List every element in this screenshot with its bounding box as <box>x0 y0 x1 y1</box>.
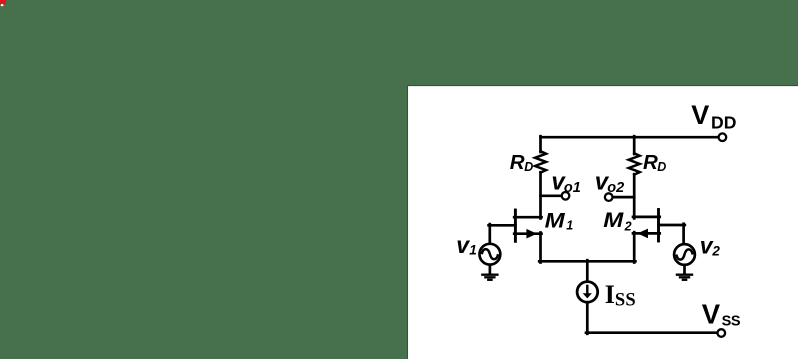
terminal node VDD <box>719 133 727 141</box>
ground below v1 <box>481 275 498 280</box>
terminal node vo2 <box>605 193 613 201</box>
wire: vo2 stub <box>613 196 635 199</box>
wire: v2 elbow vertical <box>682 224 685 245</box>
wire: left branch upper vertical (rail to RD1) <box>539 136 542 152</box>
svg-text:R: R <box>510 151 525 174</box>
svg-text:2: 2 <box>624 220 632 234</box>
wire: VDD top rail <box>541 136 719 139</box>
current source ISS circle <box>577 282 598 303</box>
wire: tail to ISS circle <box>586 260 589 282</box>
wire: M1 source lead <box>514 232 541 235</box>
label v2 <box>700 233 721 259</box>
svg-text:1: 1 <box>566 219 573 233</box>
svg-text:R: R <box>643 151 658 174</box>
label ISS <box>605 280 636 310</box>
svg-text:2: 2 <box>711 244 720 259</box>
wire: M2 source down to tail <box>633 232 636 262</box>
transistor M1 source arrow <box>526 229 537 239</box>
wire: right branch upper vertical (rail to RD2) <box>633 136 636 154</box>
source v2 sine (mirrored) <box>676 249 692 259</box>
terminal node VSS <box>718 329 726 337</box>
ground below v2 <box>676 275 693 280</box>
svg-text:M: M <box>545 209 566 233</box>
transistor M2 gate bar <box>657 210 660 242</box>
svg-text:DD: DD <box>711 113 736 133</box>
resistor RD1 zigzag <box>535 151 546 172</box>
label RD2 <box>643 151 666 174</box>
terminal node vo1 <box>562 192 570 200</box>
panel edge shading top <box>407 85 798 87</box>
wire: common tail rail <box>539 260 635 263</box>
svg-text:o1: o1 <box>564 180 581 196</box>
transistor M1 gate bar <box>514 210 517 241</box>
svg-text:M: M <box>603 208 624 232</box>
label vo2 <box>595 169 624 197</box>
label M2 <box>603 208 631 234</box>
wire: M1 drain lead <box>514 216 541 219</box>
label vo1 <box>551 169 580 197</box>
svg-text:V: V <box>691 100 709 130</box>
panel edge shading left <box>407 86 409 359</box>
white schematic panel <box>407 86 798 359</box>
wire: ISS circle to bottom rail <box>586 302 589 334</box>
svg-text:v: v <box>456 232 470 258</box>
wire: VSS bottom rail <box>586 331 718 334</box>
svg-text:I: I <box>605 280 615 309</box>
wire: M2 gate lead to v2 <box>659 224 685 227</box>
transistor M2 source arrow <box>637 229 648 239</box>
label v1 <box>456 232 477 258</box>
source v1 circle <box>480 244 501 265</box>
label M1 <box>545 209 574 233</box>
label VDD <box>691 100 736 132</box>
svg-text:V: V <box>702 299 721 330</box>
wire: left branch mid vertical (RD1 to M1 drain) <box>539 172 542 218</box>
svg-text:o2: o2 <box>607 180 624 196</box>
svg-text:1: 1 <box>469 243 477 258</box>
wire: M2 drain lead <box>633 216 660 219</box>
resistor RD2 zigzag <box>629 153 640 174</box>
label VSS <box>702 299 741 330</box>
wire: M1 source down to tail <box>539 233 542 263</box>
wire: M2 source lead <box>633 232 660 235</box>
wire: vo1 stub <box>541 194 562 197</box>
wire: v1 stem below circle <box>489 264 492 274</box>
svg-text:D: D <box>524 160 533 174</box>
svg-text:SS: SS <box>615 291 636 311</box>
svg-text:SS: SS <box>722 313 741 329</box>
svg-text:D: D <box>657 160 666 174</box>
wire: v2 stem below circle <box>683 264 686 273</box>
current source ISS arrow <box>586 285 588 294</box>
source v1 sine <box>482 249 498 259</box>
wire: M1 gate lead from v1 <box>489 224 516 227</box>
wire: right branch mid vertical (RD2 to M2 drain) <box>633 174 636 218</box>
label RD1 <box>510 151 534 174</box>
red logo blob top-left <box>0 0 6 6</box>
source v2 circle <box>674 244 695 265</box>
wire: v1 elbow vertical <box>488 224 491 245</box>
